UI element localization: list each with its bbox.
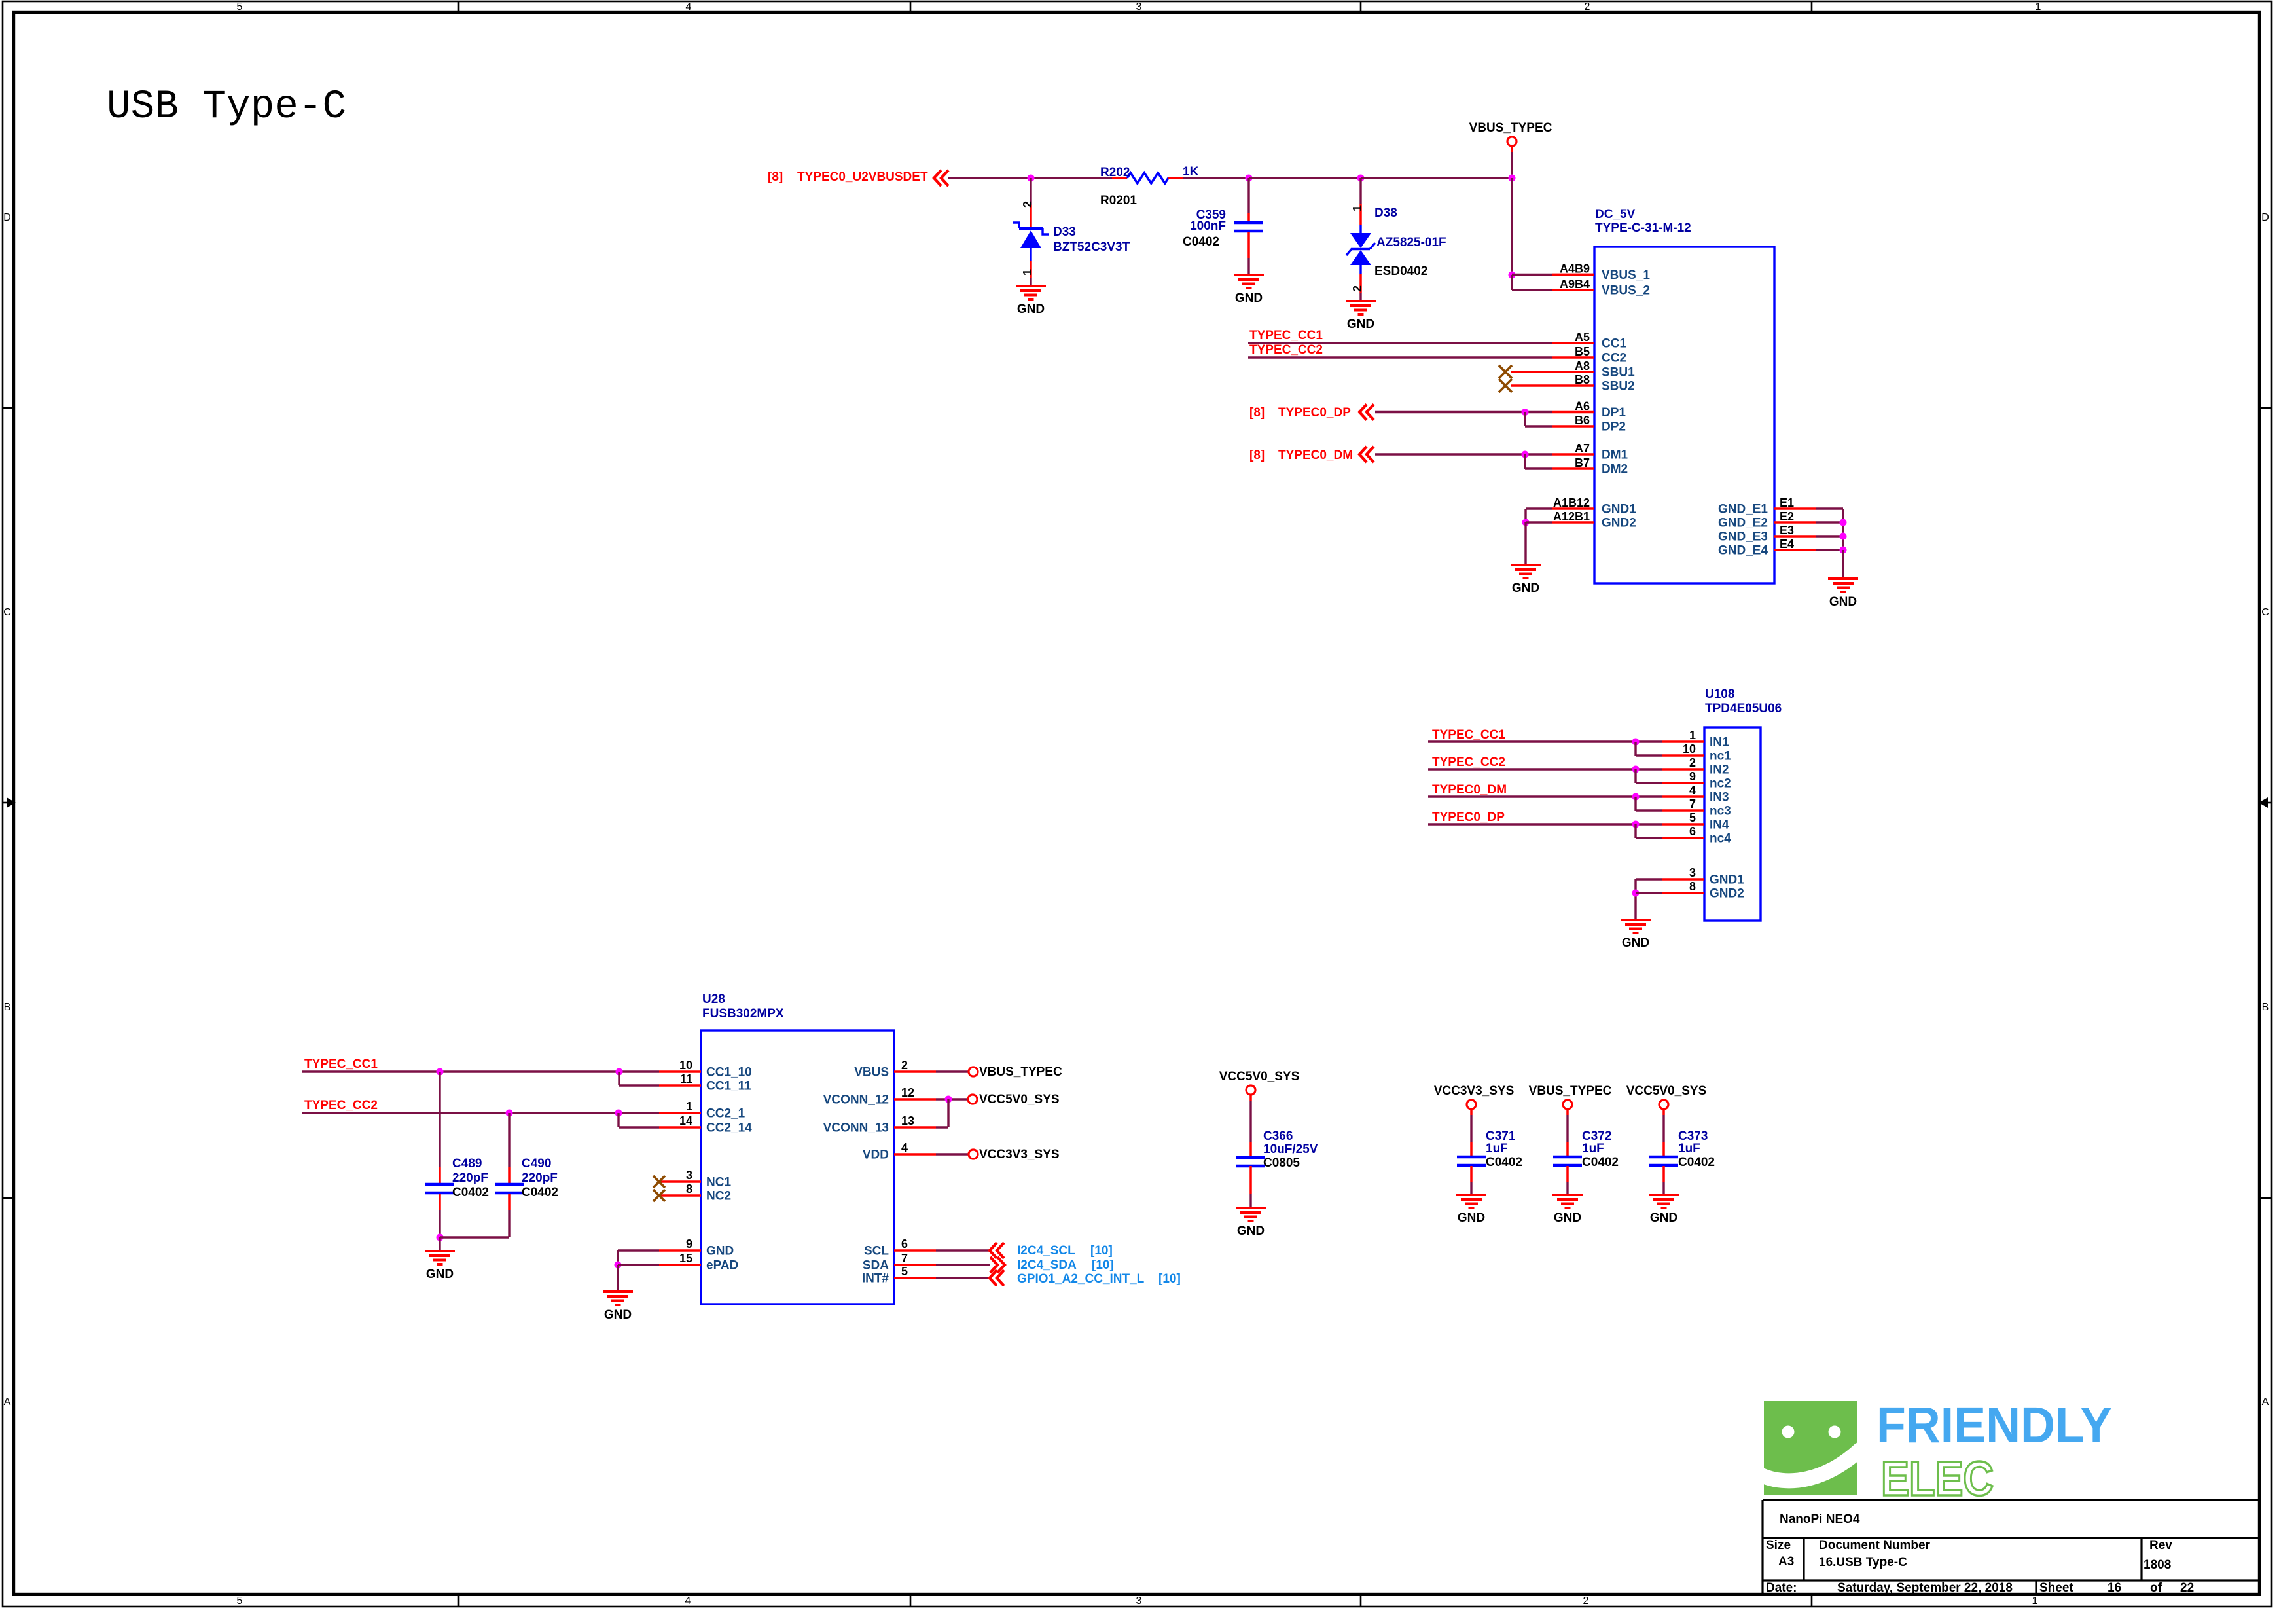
diode D38 pin 1 lead — [1359, 204, 1362, 225]
wire GND1 down to GND2 — [1524, 509, 1526, 522]
wire down to ground — [1524, 522, 1526, 565]
svg-text:C0402: C0402 — [452, 1186, 489, 1199]
svg-text:VBUS_TYPEC: VBUS_TYPEC — [979, 1065, 1062, 1079]
off-page connector TYPEC0_DP — [1359, 405, 1374, 420]
U108 pin 4 IN3 — [1662, 795, 1704, 798]
wire VCONN_12 to junction — [936, 1098, 968, 1100]
wire TYPEC0_DM to DM1 — [1375, 453, 1552, 455]
svg-text:C373: C373 — [1678, 1129, 1708, 1143]
svg-text:Document Number: Document Number — [1819, 1539, 1931, 1552]
wire C366 to ground — [1249, 1194, 1251, 1208]
svg-text:3: 3 — [1136, 1, 1142, 12]
connector pin E4 GND_E4 — [1774, 549, 1816, 551]
svg-text:220pF: 220pF — [452, 1171, 488, 1185]
svg-text:3: 3 — [686, 1169, 692, 1182]
wire E3 to vertical — [1816, 535, 1843, 537]
node TYPEC0_DM junction — [1632, 793, 1640, 801]
svg-text:R0201: R0201 — [1100, 194, 1137, 208]
capacitor C366 top lead — [1249, 1142, 1252, 1157]
svg-text:IN2: IN2 — [1710, 763, 1729, 777]
svg-text:IN3: IN3 — [1710, 791, 1729, 805]
wire junction to ground — [439, 1237, 440, 1251]
svg-text:ESD0402: ESD0402 — [1374, 264, 1427, 278]
capacitor C489 220pF — [425, 1184, 454, 1193]
svg-text:4: 4 — [686, 1, 692, 12]
ground GND under connector right — [1828, 579, 1858, 609]
svg-text:A6: A6 — [1575, 400, 1590, 413]
svg-text:VCC3V3_SYS: VCC3V3_SYS — [1434, 1084, 1515, 1098]
U28 pin 15 ePAD — [659, 1264, 701, 1266]
ground GND under U108 — [1621, 920, 1651, 950]
capacitor C359 branch wire — [1247, 178, 1249, 213]
U108 pin 9 nc2 — [1662, 782, 1704, 784]
svg-text:16.USB Type-C: 16.USB Type-C — [1819, 1556, 1907, 1569]
diode D33 BZT52C3V3T zener symbol — [1013, 223, 1049, 261]
ground GND under U28 — [603, 1292, 633, 1322]
svg-text:C: C — [3, 607, 11, 618]
connector pin B7 DM2 — [1552, 467, 1594, 470]
wire C373 to ground — [1662, 1182, 1664, 1195]
wire SDA to off-page — [936, 1264, 990, 1266]
svg-text:nc3: nc3 — [1710, 805, 1731, 818]
svg-text:C372: C372 — [1582, 1129, 1611, 1143]
svg-text:U28: U28 — [702, 993, 725, 1006]
wire jog to CC2_14 — [617, 1113, 619, 1127]
wire TYPEC_CC1 to U108 — [1428, 740, 1662, 742]
svg-text:10uF/25V: 10uF/25V — [1263, 1142, 1318, 1156]
ground GND under C489/C490 — [425, 1251, 455, 1281]
node C490 junction — [506, 1110, 513, 1117]
svg-text:1: 1 — [686, 1100, 692, 1113]
svg-text:TYPEC_CC2: TYPEC_CC2 — [1249, 343, 1323, 357]
wire jog to DP2 — [1524, 412, 1526, 427]
U28 pin 5 INT# — [894, 1277, 936, 1279]
svg-text:CC2: CC2 — [1602, 352, 1626, 365]
svg-text:1: 1 — [1689, 729, 1696, 742]
node D33 top junction — [1028, 175, 1035, 182]
wire C490 down — [508, 1210, 510, 1237]
U108 pin 3 GND1 — [1662, 878, 1704, 881]
connector pin A9B4 VBUS_2 — [1552, 289, 1594, 291]
svg-text:CC1: CC1 — [1602, 337, 1626, 351]
capacitor C372 1uF — [1553, 1157, 1582, 1165]
U28 pin 1 CC2_1 — [659, 1112, 701, 1114]
ground GND under D38 — [1346, 301, 1376, 331]
U28 pin 7 SDA — [894, 1264, 936, 1266]
svg-text:12: 12 — [901, 1086, 914, 1099]
ground GND under C371 — [1456, 1195, 1486, 1225]
node VCONN junction — [945, 1096, 952, 1103]
diode D33 pin 1 lead — [1030, 261, 1032, 278]
wire D38 to VBUS_TYPEC node — [1361, 177, 1512, 179]
U28 pin 6 SCL — [894, 1249, 936, 1252]
svg-text:DM2: DM2 — [1602, 463, 1628, 477]
svg-text:GND: GND — [1235, 291, 1263, 305]
wire VCC3V3_SYS to C371 — [1470, 1109, 1473, 1115]
border arrow right — [2267, 802, 2272, 804]
capacitor C359 top lead — [1247, 213, 1250, 222]
svg-text:9: 9 — [1689, 770, 1696, 783]
node C489 junction — [437, 1068, 444, 1076]
wire VCC5V0_SYS to C366 — [1249, 1095, 1252, 1101]
svg-text:8: 8 — [1689, 880, 1696, 893]
IC U28 body — [701, 1030, 894, 1304]
svg-text:GND_E2: GND_E2 — [1718, 517, 1768, 530]
connector pin A8 SBU1 — [1511, 371, 1594, 373]
svg-text:Date:: Date: — [1766, 1581, 1797, 1595]
off-page connector TYPEC0_U2VBUSDET — [934, 170, 948, 186]
svg-text:nc2: nc2 — [1710, 777, 1731, 791]
svg-text:ePAD: ePAD — [706, 1259, 738, 1273]
capacitor C373 bottom lead — [1662, 1166, 1665, 1182]
svg-text:2: 2 — [1351, 285, 1364, 292]
U108 pin 6 nc4 — [1662, 837, 1704, 839]
svg-text:2: 2 — [1689, 756, 1696, 769]
svg-text:A12B1: A12B1 — [1553, 510, 1590, 523]
off-page connector I2C4_SCL — [990, 1243, 1004, 1258]
diode D33 branch wire — [1030, 178, 1031, 205]
wire VCC5V0_SYS to C373 — [1662, 1109, 1665, 1115]
capacitor C359 100nF — [1234, 223, 1263, 231]
capacitor C489 branch wire — [439, 1072, 440, 1167]
U108 pin 10 nc1 — [1662, 754, 1704, 757]
svg-text:5: 5 — [237, 1, 243, 12]
svg-text:[8]: [8] — [1249, 448, 1265, 462]
svg-text:13: 13 — [901, 1114, 914, 1127]
svg-text:SBU2: SBU2 — [1602, 380, 1635, 393]
svg-text:R202: R202 — [1100, 166, 1130, 179]
svg-text:9: 9 — [686, 1237, 692, 1250]
svg-text:VBUS_1: VBUS_1 — [1602, 268, 1650, 282]
title block dividers — [1803, 1538, 1804, 1580]
wire U28 ePAD pin — [618, 1264, 659, 1266]
svg-text:FRIENDLY: FRIENDLY — [1876, 1397, 2112, 1453]
svg-text:E2: E2 — [1780, 510, 1794, 523]
wire C359 to GND — [1247, 258, 1249, 275]
ground GND under C359 — [1234, 275, 1264, 305]
diode D38 AZ5825-01F TVS symbol — [1346, 225, 1375, 274]
capacitor C366 bottom lead — [1249, 1166, 1252, 1194]
svg-text:E1: E1 — [1780, 496, 1794, 509]
title block outline — [1763, 1500, 2259, 1594]
svg-text:VBUS: VBUS — [854, 1066, 889, 1080]
off-page connector I2C4_SDA — [990, 1257, 1005, 1273]
svg-text:TYPEC0_DP: TYPEC0_DP — [1432, 811, 1505, 824]
svg-text:GND: GND — [1237, 1224, 1265, 1238]
svg-text:NanoPi NEO4: NanoPi NEO4 — [1780, 1512, 1860, 1526]
wire E4 to vertical — [1816, 549, 1843, 551]
resistor R202 right lead — [1168, 177, 1183, 179]
svg-text:A: A — [2262, 1396, 2269, 1408]
U28 pin 8 NC2 — [659, 1194, 701, 1197]
wire U28 GND pin — [618, 1249, 659, 1251]
svg-text:GND2: GND2 — [1710, 887, 1744, 901]
svg-text:Size: Size — [1766, 1539, 1791, 1552]
svg-text:AZ5825-01F: AZ5825-01F — [1376, 236, 1446, 249]
svg-text:D: D — [3, 212, 11, 223]
wire jog to DM2 — [1524, 454, 1526, 469]
ground GND under D33 — [1016, 286, 1046, 316]
svg-text:6: 6 — [901, 1237, 908, 1250]
svg-text:6: 6 — [1689, 825, 1696, 838]
wire E1 to vertical — [1816, 507, 1843, 509]
wire C489 to ground junction — [439, 1210, 440, 1237]
wire VBUS_TYPEC to connector — [1511, 178, 1513, 275]
svg-text:C0402: C0402 — [1678, 1156, 1715, 1169]
svg-text:B: B — [2262, 1002, 2269, 1013]
svg-text:VBUS_TYPEC: VBUS_TYPEC — [1469, 121, 1552, 135]
svg-text:VCC3V3_SYS: VCC3V3_SYS — [979, 1148, 1060, 1161]
connector pin E1 GND_E1 — [1774, 507, 1816, 510]
svg-text:[10]: [10] — [1090, 1244, 1113, 1258]
svg-text:TYPEC_CC2: TYPEC_CC2 — [304, 1099, 378, 1112]
node TYPEC0_DP junction — [1632, 821, 1640, 828]
svg-text:GND_E1: GND_E1 — [1718, 503, 1768, 517]
capacitor C490 220pF — [495, 1184, 524, 1193]
svg-text:2: 2 — [901, 1059, 908, 1072]
svg-text:VCONN_13: VCONN_13 — [823, 1122, 889, 1135]
wire GND1 pin to junction — [1526, 507, 1552, 509]
svg-text:GND: GND — [604, 1308, 632, 1322]
node GND2 junction — [1522, 519, 1530, 526]
power symbol VCC3V3_SYS circle at C371 — [1467, 1100, 1476, 1109]
svg-text:3: 3 — [1689, 866, 1696, 879]
node TYPEC_CC1 junction — [1632, 739, 1640, 746]
wire TYPEC0_DM to U108 — [1428, 795, 1662, 797]
capacitor C366 10uF/25V — [1236, 1158, 1265, 1166]
U28 pin 11 CC1_11 — [659, 1084, 701, 1087]
FriendlyElec logo green square — [1759, 1401, 1861, 1495]
node TYPEC_CC2 junction — [1632, 766, 1640, 773]
wire ePAD to ground — [617, 1265, 619, 1292]
wire jog to CC1_11 — [618, 1072, 620, 1085]
svg-text:GND: GND — [1829, 595, 1857, 609]
capacitor C359 bottom lead — [1247, 232, 1250, 258]
svg-text:Rev: Rev — [2149, 1539, 2172, 1552]
U28 pin 4 VDD — [894, 1153, 936, 1156]
svg-text:10: 10 — [1683, 742, 1696, 756]
wire INT# to off-page — [936, 1277, 990, 1279]
no-connect X on SBU1 — [1499, 365, 1512, 378]
U28 pin 2 VBUS — [894, 1070, 936, 1073]
capacitor C489 bottom lead — [439, 1194, 441, 1210]
svg-text:TYPE-C-31-M-12: TYPE-C-31-M-12 — [1595, 221, 1691, 235]
svg-text:VCC5V0_SYS: VCC5V0_SYS — [1219, 1070, 1300, 1084]
capacitor C372 top lead — [1566, 1142, 1569, 1157]
wire TYPEC_CC2 to CC2 pin — [1248, 356, 1552, 358]
wire C359 to D38 — [1249, 177, 1361, 179]
svg-text:C: C — [2261, 607, 2269, 618]
border row ticks right — [2259, 407, 2272, 409]
svg-text:CC2_1: CC2_1 — [706, 1107, 745, 1121]
svg-text:[8]: [8] — [1249, 406, 1265, 420]
svg-text:CC1_11: CC1_11 — [706, 1080, 751, 1093]
svg-text:GND: GND — [1458, 1211, 1485, 1225]
capacitor C371 bottom lead — [1470, 1166, 1473, 1182]
connector pin B5 CC2 — [1552, 356, 1594, 359]
wire VBUS_TYPEC down — [1511, 147, 1513, 152]
svg-text:SCL: SCL — [864, 1245, 889, 1258]
wire jog TYPEC_CC1 to nc pin — [1634, 742, 1636, 756]
svg-text:GND: GND — [706, 1245, 734, 1258]
node ePAD junction — [615, 1262, 622, 1269]
svg-text:1uF: 1uF — [1486, 1142, 1508, 1156]
svg-text:E3: E3 — [1780, 524, 1794, 537]
wire U28 GND down — [617, 1250, 619, 1265]
diode D33 pin 2 lead — [1030, 205, 1032, 227]
wire to VBUS_1 pin — [1512, 274, 1552, 276]
svg-text:GND_E3: GND_E3 — [1718, 530, 1768, 544]
no-connect X on SBU2 — [1499, 379, 1512, 392]
capacitor C490 bottom lead — [508, 1194, 511, 1210]
svg-text:GND: GND — [426, 1267, 454, 1281]
svg-text:Saturday, September 22, 2018: Saturday, September 22, 2018 — [1837, 1581, 2013, 1595]
resistor R202 left lead — [1112, 177, 1127, 179]
svg-text:CC2_14: CC2_14 — [706, 1122, 752, 1135]
wire jog TYPEC0_DP to nc pin — [1634, 824, 1636, 838]
svg-text:VCC5V0_SYS: VCC5V0_SYS — [979, 1093, 1060, 1106]
svg-text:15: 15 — [679, 1252, 692, 1265]
capacitor C371 1uF — [1457, 1157, 1486, 1165]
node E4 junction — [1840, 547, 1847, 554]
node CC2_14 branch junction — [615, 1110, 622, 1117]
wire R202 to C359 — [1183, 177, 1249, 179]
svg-text:DM1: DM1 — [1602, 448, 1628, 462]
ground GND under C366 — [1236, 1208, 1266, 1238]
svg-text:1uF: 1uF — [1582, 1142, 1604, 1156]
svg-text:INT#: INT# — [862, 1272, 889, 1286]
capacitor C372 bottom lead — [1566, 1166, 1569, 1182]
wire TYPEC0_DP to U108 — [1428, 823, 1662, 825]
svg-text:1uF: 1uF — [1678, 1142, 1700, 1156]
svg-text:10: 10 — [679, 1059, 692, 1072]
svg-text:E4: E4 — [1780, 538, 1794, 551]
svg-text:A5: A5 — [1575, 331, 1590, 344]
svg-text:100nF: 100nF — [1190, 219, 1226, 233]
connector pin B8 SBU2 — [1511, 384, 1594, 387]
svg-text:Sheet: Sheet — [2039, 1581, 2073, 1595]
node C489/C490 ground junction — [437, 1234, 444, 1241]
capacitor C489 top lead — [439, 1167, 441, 1184]
title block row line 2 — [1763, 1579, 2259, 1581]
border column ticks top — [458, 1, 460, 12]
wire D38 to GND — [1359, 293, 1361, 301]
power port VCC5V0_SYS at U28 — [968, 1095, 977, 1104]
wire VBUS pin to port — [936, 1070, 969, 1072]
title block row line 1 — [1763, 1537, 2259, 1539]
svg-text:A8: A8 — [1575, 359, 1590, 373]
power symbol VBUS_TYPEC circle at C372 — [1563, 1100, 1572, 1109]
capacitor C490 branch wire — [508, 1113, 510, 1167]
svg-text:D38: D38 — [1374, 206, 1397, 220]
svg-text:TYPEC0_DM: TYPEC0_DM — [1278, 448, 1353, 462]
wire D33 to GND — [1030, 278, 1031, 286]
capacitor C373 top lead — [1662, 1142, 1665, 1157]
svg-text:3: 3 — [1136, 1596, 1142, 1607]
wire U108 GND1 — [1636, 878, 1662, 880]
U108 pin 2 IN2 — [1662, 768, 1704, 771]
no-connect X on NC2 — [653, 1190, 665, 1201]
svg-text:7: 7 — [901, 1252, 908, 1265]
svg-text:NC2: NC2 — [706, 1190, 731, 1203]
wire TYPEC_CC1 to U28 — [302, 1070, 659, 1072]
svg-text:ELEC: ELEC — [1881, 1451, 1994, 1506]
svg-text:VCC5V0_SYS: VCC5V0_SYS — [1626, 1084, 1707, 1098]
wire C372 to ground — [1566, 1182, 1568, 1195]
svg-text:2: 2 — [1585, 1, 1590, 12]
svg-text:USB Type-C: USB Type-C — [107, 84, 346, 130]
connector pin A7 DM1 — [1552, 453, 1594, 456]
svg-text:GND1: GND1 — [1710, 873, 1744, 887]
svg-text:GND: GND — [1512, 581, 1539, 595]
svg-text:GND: GND — [1554, 1211, 1581, 1225]
node DP junction — [1522, 409, 1529, 416]
wire VCONN_13 jog — [936, 1126, 948, 1128]
wire U108 GND1 down — [1634, 879, 1636, 920]
svg-text:4: 4 — [685, 1596, 691, 1607]
svg-text:A7: A7 — [1575, 442, 1590, 455]
wire TYPEC0_U2VBUSDET to R202 — [948, 177, 1112, 179]
svg-text:1808: 1808 — [2144, 1558, 2171, 1572]
svg-text:A9B4: A9B4 — [1560, 278, 1590, 291]
connector pin E2 GND_E2 — [1774, 521, 1816, 524]
U28 pin 3 NC1 — [659, 1180, 701, 1183]
node E3 junction — [1840, 533, 1847, 540]
node E2 junction — [1840, 519, 1847, 526]
svg-text:5: 5 — [1689, 811, 1696, 824]
svg-text:TYPEC_CC1: TYPEC_CC1 — [1249, 329, 1323, 342]
off-page connector GPIO1_A2_CC_INT_L — [990, 1270, 1004, 1286]
svg-text:I2C4_SCL: I2C4_SCL — [1017, 1244, 1075, 1258]
svg-text:C490: C490 — [522, 1157, 551, 1171]
svg-text:5: 5 — [237, 1596, 243, 1607]
capacitor C373 1uF — [1649, 1157, 1678, 1165]
svg-text:I2C4_SDA: I2C4_SDA — [1017, 1258, 1077, 1272]
svg-text:C0402: C0402 — [522, 1186, 558, 1199]
svg-text:[8]: [8] — [768, 170, 783, 184]
diode D38 pin 2 lead — [1359, 274, 1362, 293]
svg-text:VCONN_12: VCONN_12 — [823, 1093, 889, 1107]
svg-text:7: 7 — [1689, 797, 1696, 811]
U28 pin 9 GND — [659, 1249, 701, 1252]
connector pin A6 DP1 — [1552, 411, 1594, 414]
svg-text:IN1: IN1 — [1710, 736, 1729, 750]
wire SCL to off-page — [936, 1249, 990, 1251]
svg-text:GND: GND — [1347, 318, 1374, 331]
power symbol VCC5V0_SYS circle at C366 — [1246, 1085, 1255, 1095]
svg-text:SBU1: SBU1 — [1602, 366, 1635, 380]
power symbol VBUS_TYPEC circle — [1507, 137, 1516, 146]
svg-text:FUSB302MPX: FUSB302MPX — [702, 1007, 784, 1021]
svg-text:[10]: [10] — [1158, 1272, 1181, 1286]
wire GND2 pin — [1526, 521, 1552, 523]
U28 pin 10 CC1_10 — [659, 1070, 701, 1073]
svg-text:1K: 1K — [1183, 165, 1199, 179]
svg-text:GND1: GND1 — [1602, 503, 1636, 517]
no-connect X on NC1 — [653, 1176, 665, 1188]
svg-text:1: 1 — [1351, 205, 1364, 211]
svg-text:TYPEC0_U2VBUSDET: TYPEC0_U2VBUSDET — [797, 170, 928, 184]
node CC1_11 branch junction — [616, 1068, 623, 1076]
capacitor C490 top lead — [508, 1167, 511, 1184]
node DM junction — [1522, 451, 1529, 458]
U108 pin 1 IN1 — [1662, 740, 1704, 743]
svg-text:IN4: IN4 — [1710, 818, 1729, 832]
node C359 junction — [1246, 175, 1253, 182]
wire VDD pin to port — [936, 1153, 969, 1155]
node U108 GND2 junction — [1632, 890, 1640, 897]
svg-text:of: of — [2150, 1581, 2162, 1595]
